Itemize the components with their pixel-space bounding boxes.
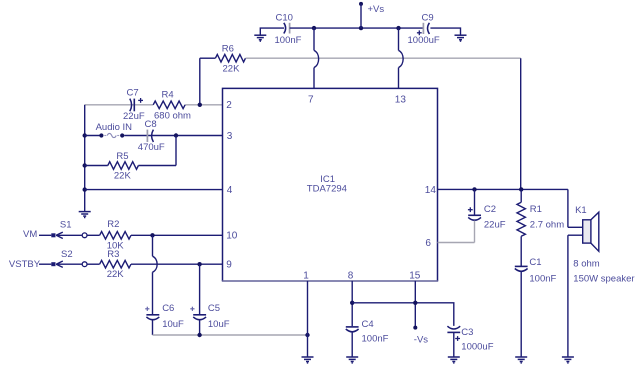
capacitor C5 xyxy=(190,303,229,335)
ground G3 (input) xyxy=(79,212,91,218)
svg-text:13: 13 xyxy=(395,95,407,106)
svg-text:3: 3 xyxy=(227,131,233,142)
node pin15-bus xyxy=(413,301,417,305)
switch S2 xyxy=(39,249,100,268)
wire R2 node to C6 with hop xyxy=(153,235,158,314)
svg-text:C5: C5 xyxy=(208,303,220,314)
svg-text:22K: 22K xyxy=(107,269,125,280)
svg-text:1000uF: 1000uF xyxy=(408,35,440,46)
node rail-pin7 xyxy=(312,26,316,30)
svg-text:6: 6 xyxy=(425,238,431,249)
pin label 9 xyxy=(226,260,232,271)
svg-text:1000uF: 1000uF xyxy=(461,342,493,353)
svg-text:C10: C10 xyxy=(276,13,293,24)
label Audio IN xyxy=(96,122,133,133)
node R3-C5 xyxy=(197,262,201,266)
svg-text:1: 1 xyxy=(303,271,309,282)
wire C8 to R5 xyxy=(175,136,177,166)
svg-text:22K: 22K xyxy=(114,170,132,181)
svg-text:C8: C8 xyxy=(145,119,157,130)
svg-text:22uF: 22uF xyxy=(484,219,506,230)
ground G7 (C1) xyxy=(515,357,527,363)
capacitor C2 xyxy=(438,189,506,242)
svg-text:100nF: 100nF xyxy=(529,273,556,284)
wire pin 7 with hop xyxy=(314,28,319,88)
wire output feedback vertical xyxy=(520,58,522,189)
pin label 10 xyxy=(226,231,238,242)
pin label 1 xyxy=(303,271,309,282)
ground G2 (C9) xyxy=(455,35,467,41)
wire -Vs bus xyxy=(352,303,454,326)
capacitor C7 xyxy=(123,88,145,123)
svg-text:8: 8 xyxy=(348,271,354,282)
node pin4-ground xyxy=(83,187,87,191)
svg-text:TDA7294: TDA7294 xyxy=(307,184,347,195)
capacitor C8 xyxy=(138,119,165,153)
svg-text:C1: C1 xyxy=(529,257,541,268)
pin label 2 xyxy=(226,100,232,111)
svg-text:22K: 22K xyxy=(223,63,241,74)
svg-text:9: 9 xyxy=(226,260,232,271)
pin label 13 xyxy=(395,95,407,106)
resistor R5 xyxy=(85,151,176,182)
capacitor C6 xyxy=(145,303,184,335)
svg-text:R2: R2 xyxy=(107,219,119,230)
wire pin 13 with hop xyxy=(399,28,404,88)
wire R6 to pin 2 node xyxy=(199,58,201,105)
svg-text:7: 7 xyxy=(308,95,314,106)
ground G6 (C3) xyxy=(448,357,460,363)
svg-text:R3: R3 xyxy=(107,249,119,260)
node C5-bus xyxy=(197,333,201,337)
svg-text:R6: R6 xyxy=(222,44,234,55)
wire R3 node to C5 xyxy=(199,264,201,314)
-Vs supply terminal xyxy=(413,326,428,346)
ground G1 (C10) xyxy=(254,35,266,41)
svg-text:R5: R5 xyxy=(116,151,128,162)
svg-text:15: 15 xyxy=(409,271,421,282)
svg-text:C7: C7 xyxy=(127,88,139,99)
wire C10 to left ground xyxy=(260,28,284,35)
resistor R4 xyxy=(153,89,191,121)
wire speaker to ground xyxy=(567,235,569,357)
svg-text:10uF: 10uF xyxy=(162,319,184,330)
node rail-Vs xyxy=(359,26,363,30)
resistor R3 xyxy=(100,249,223,280)
resistor R1 xyxy=(517,189,564,266)
ground G5 (C4) xyxy=(346,357,358,363)
svg-text:C9: C9 xyxy=(422,13,434,24)
node pin2-R6 xyxy=(198,103,202,107)
pin label 14 xyxy=(425,185,437,196)
svg-text:10: 10 xyxy=(226,231,238,242)
svg-text:R1: R1 xyxy=(530,204,542,215)
resistor R6 xyxy=(200,44,246,75)
op-amp IC1 TDA7294 xyxy=(222,88,438,281)
wire pin 14 xyxy=(438,188,568,190)
svg-text:470uF: 470uF xyxy=(138,142,165,153)
node pin1-bus xyxy=(305,333,309,337)
svg-text:S2: S2 xyxy=(61,249,73,260)
wire R6 to output node xyxy=(246,57,521,59)
node rail-pin13 xyxy=(396,26,400,30)
pin label 7 xyxy=(308,95,314,106)
svg-text:R4: R4 xyxy=(162,89,174,100)
svg-text:2: 2 xyxy=(226,100,232,111)
svg-text:680 ohm: 680 ohm xyxy=(154,110,191,121)
capacitor C9 xyxy=(408,13,440,47)
svg-text:+Vs: +Vs xyxy=(368,4,385,15)
speaker K1 xyxy=(568,189,635,284)
capacitor C1 xyxy=(515,257,557,357)
audio input connector xyxy=(99,133,124,137)
svg-text:C6: C6 xyxy=(162,303,174,314)
svg-text:10uF: 10uF xyxy=(208,319,230,330)
svg-text:S1: S1 xyxy=(60,219,72,230)
ground G4 (pin 1) xyxy=(302,357,314,363)
svg-text:150W speaker: 150W speaker xyxy=(573,273,634,284)
capacitor C4 xyxy=(346,319,389,357)
svg-text:4: 4 xyxy=(227,185,233,196)
node pin8-bus xyxy=(350,301,354,305)
svg-text:2.7 ohm: 2.7 ohm xyxy=(530,219,564,230)
svg-text:C4: C4 xyxy=(362,319,374,330)
wire pin 15 xyxy=(414,281,416,328)
svg-text:Audio IN: Audio IN xyxy=(96,122,133,133)
+Vs supply terminal xyxy=(359,2,384,28)
svg-text:100nF: 100nF xyxy=(275,35,302,46)
switch S1 xyxy=(39,219,100,238)
label VM xyxy=(23,229,37,240)
wire pin 2 left segment xyxy=(85,104,154,106)
svg-text:8 ohm: 8 ohm xyxy=(573,259,599,270)
svg-text:VM: VM xyxy=(23,229,37,240)
node R1-out xyxy=(519,187,523,191)
node audio-in xyxy=(83,133,87,137)
pin label 8 xyxy=(348,271,354,282)
svg-text:VSTBY: VSTBY xyxy=(9,259,41,270)
wire pin 4 xyxy=(85,189,223,191)
svg-text:14: 14 xyxy=(425,185,437,196)
node R2-C6 xyxy=(150,233,154,237)
wire pin 8 xyxy=(351,281,353,326)
node R5 left xyxy=(83,163,87,167)
ground G8 (speaker) xyxy=(562,357,574,363)
wire +Vs rail xyxy=(290,27,424,29)
resistor R2 xyxy=(100,219,223,251)
node C2-out xyxy=(472,187,476,191)
svg-text:C2: C2 xyxy=(484,204,496,215)
pin label 4 xyxy=(227,185,233,196)
wire pin 2 right segment xyxy=(185,104,222,106)
svg-text:22uF: 22uF xyxy=(123,111,145,122)
wire bottom bus xyxy=(153,334,308,336)
capacitor C3 xyxy=(447,326,493,357)
wire audio stub xyxy=(85,135,102,137)
pin label 3 xyxy=(227,131,233,142)
pin label 6 xyxy=(425,238,431,249)
svg-text:100nF: 100nF xyxy=(362,333,389,344)
wire input left vertical xyxy=(84,105,86,211)
svg-text:-Vs: -Vs xyxy=(414,335,429,346)
capacitor C10 xyxy=(275,13,302,47)
wire C9 to right ground xyxy=(430,28,460,35)
node pin3-R5 xyxy=(174,133,178,137)
wire pin 3 xyxy=(124,135,222,137)
svg-text:K1: K1 xyxy=(575,205,587,216)
pin label 15 xyxy=(409,271,421,282)
label VSTBY xyxy=(9,259,41,270)
svg-text:C3: C3 xyxy=(461,327,473,338)
wire pin 1 to ground xyxy=(307,281,309,357)
